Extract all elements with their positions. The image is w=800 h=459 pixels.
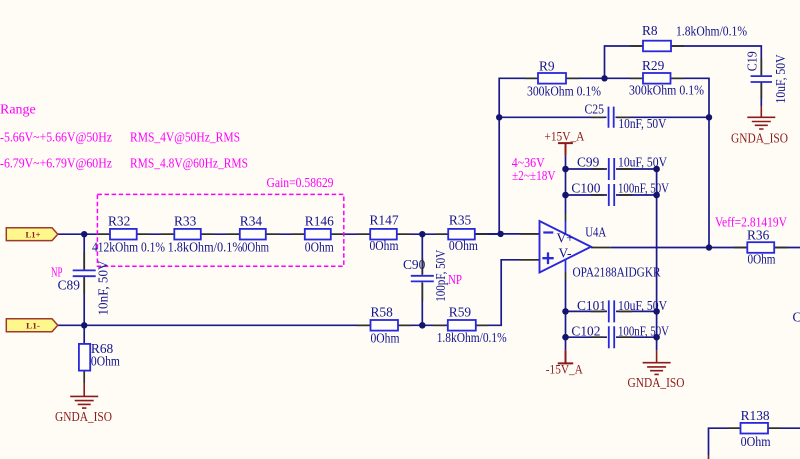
wire V- pin down through C101 C102 — [565, 280, 567, 351]
svg-text:0Ohm: 0Ohm — [748, 251, 776, 266]
capacitor C102 plates — [609, 326, 614, 348]
node R8 / R9 / R29 — [601, 75, 607, 81]
pins C102 — [591, 336, 632, 338]
pins R146 — [292, 233, 345, 235]
svg-text:R34: R34 — [240, 213, 263, 228]
svg-text:Range: Range — [0, 103, 36, 118]
wire C102 line right — [616, 336, 657, 338]
svg-text:Veff=2.81419V: Veff=2.81419V — [715, 215, 787, 230]
svg-text:C102: C102 — [571, 324, 600, 339]
op-amp V- pin inner segment — [565, 260, 567, 273]
node V- C102 — [562, 334, 569, 341]
svg-text:412kOhm 0.1%: 412kOhm 0.1% — [92, 240, 165, 255]
wire C19 bottom to ground stub — [760, 83, 762, 107]
resistor R146 — [305, 229, 331, 240]
pin op-amp output — [591, 247, 611, 249]
svg-text:V+: V+ — [557, 230, 574, 245]
svg-text:R32: R32 — [108, 214, 130, 229]
node V+ C99 — [562, 166, 569, 173]
svg-text:-6.79V~+6.79V@60Hz: -6.79V~+6.79V@60Hz — [0, 156, 112, 171]
COMPONENT BODIES — [79, 41, 774, 434]
resistor R59 — [448, 320, 476, 331]
svg-text:R147: R147 — [370, 213, 399, 228]
wire C90 bottom vertical — [421, 282, 423, 325]
svg-text:R9: R9 — [539, 59, 555, 74]
wire C100 line left — [566, 194, 608, 196]
svg-text:C25: C25 — [585, 102, 605, 117]
capacitor C100 plates — [609, 184, 614, 206]
pins R147 — [357, 233, 410, 235]
node C102 right — [653, 334, 660, 341]
svg-text:Gain=0.58629: Gain=0.58629 — [267, 176, 334, 191]
svg-text:L1-: L1- — [26, 320, 40, 330]
svg-text:L1+: L1+ — [26, 229, 41, 239]
PINS dark segments — [84, 46, 787, 428]
svg-text:1.8kOhm/0.1%: 1.8kOhm/0.1% — [676, 23, 747, 38]
wire C89 bottom plate down to L1- node — [83, 277, 85, 325]
svg-text:C99: C99 — [577, 154, 600, 169]
capacitor C89 plates — [73, 270, 96, 276]
resistor R138 — [741, 423, 769, 434]
svg-text:100nF, 50V: 100nF, 50V — [618, 181, 669, 196]
pins C100 — [591, 194, 632, 196]
svg-text:U4A: U4A — [585, 224, 606, 239]
capacitor C90 plates — [411, 276, 434, 282]
resistor R68 (vertical) — [79, 344, 90, 371]
pins C99 — [591, 168, 632, 170]
port L1- — [6, 319, 58, 332]
wire C102 line left — [566, 336, 608, 338]
power -15V_A bar — [558, 350, 573, 363]
pins R32 — [98, 233, 151, 235]
op-amp U4A triangle — [540, 221, 592, 273]
wire L1- row to corner up to non-inverting input — [58, 260, 540, 326]
svg-text:10uF, 50V: 10uF, 50V — [618, 154, 667, 169]
pins C90 — [421, 258, 423, 301]
svg-text:RMS_4V@50Hz_RMS: RMS_4V@50Hz_RMS — [130, 130, 240, 145]
op-amp V+ pin inner segment — [565, 221, 567, 234]
port L1+ — [6, 228, 58, 241]
node feedback / inverting input — [497, 231, 503, 237]
wire +15V stub to V+ pin — [565, 156, 567, 214]
pin R68 bottom — [83, 371, 85, 383]
red tail bottom R138 vertical — [708, 455, 710, 459]
svg-text:10nF, 50V: 10nF, 50V — [95, 260, 110, 315]
svg-text:100pF, 50V: 100pF, 50V — [433, 250, 448, 302]
node R58 / R59 / C90 — [419, 322, 426, 329]
capacitor C19 plates — [751, 76, 772, 82]
power +15V_A bar — [558, 143, 573, 156]
svg-text:-5.66V~+5.66V@50Hz: -5.66V~+5.66V@50Hz — [0, 130, 112, 145]
pin op-amp non-inverting input — [520, 259, 540, 261]
node C100 right — [653, 192, 660, 199]
svg-text:R58: R58 — [371, 304, 394, 319]
resistor R34 — [240, 229, 266, 240]
svg-text:0Ohm: 0Ohm — [371, 330, 400, 345]
wire C100 line right — [616, 194, 657, 196]
wire R8 feedback branch top — [605, 46, 762, 78]
svg-text:10uF, 50V: 10uF, 50V — [618, 298, 667, 313]
svg-text:-15V_A: -15V_A — [546, 361, 584, 376]
wire L1- node down to R68 — [83, 325, 85, 344]
pins R29 — [630, 77, 684, 79]
svg-text:C19: C19 — [745, 51, 760, 71]
svg-text:1.8kOhm/0.1%: 1.8kOhm/0.1% — [168, 240, 243, 255]
node V- C101 — [562, 308, 569, 315]
Gain dashed box — [97, 194, 343, 266]
svg-text:0Ohm: 0Ohm — [91, 354, 120, 369]
resistor R8 — [643, 41, 671, 52]
svg-text:GNDA_ISO: GNDA_ISO — [731, 131, 788, 146]
resistor R36 — [747, 242, 774, 253]
pins C89 — [83, 252, 85, 294]
svg-text:0Ohm: 0Ohm — [370, 238, 399, 253]
wire C99 line right — [616, 168, 657, 170]
svg-text:0Ohm: 0Ohm — [741, 434, 772, 449]
svg-text:GNDA_ISO: GNDA_ISO — [628, 375, 685, 390]
node V+ C100 — [562, 192, 569, 199]
svg-text:OPA2188AIDGKR: OPA2188AIDGKR — [573, 264, 661, 279]
pins C19 — [760, 59, 762, 100]
svg-text:R59: R59 — [449, 304, 472, 319]
svg-text:+15V_A: +15V_A — [544, 129, 585, 144]
pins R35 — [435, 233, 488, 235]
pins R9 — [525, 77, 579, 79]
wire R29 right to vertical down to output node — [671, 78, 710, 247]
svg-text:1.8kOhm/0.1%: 1.8kOhm/0.1% — [437, 330, 507, 345]
resistor R29 — [643, 73, 671, 84]
resistor R147 — [370, 229, 397, 240]
capacitor C99 plates — [609, 158, 614, 180]
wire C99 line left — [566, 168, 608, 170]
wire decoupling ground vertical — [656, 169, 658, 350]
svg-text:R8: R8 — [642, 23, 658, 38]
capacitor C101 plates — [609, 300, 614, 322]
svg-text:R138: R138 — [741, 408, 770, 423]
capacitor C25 plates — [609, 107, 614, 128]
resistor R9 — [538, 73, 566, 84]
pins R34 — [227, 233, 280, 235]
svg-text:0Ohm: 0Ohm — [449, 238, 478, 253]
svg-text:10nF, 50V: 10nF, 50V — [618, 116, 666, 131]
node L1- / C89 / R68 — [81, 322, 87, 328]
svg-text:100nF, 50V: 100nF, 50V — [618, 324, 669, 339]
svg-text:±2~±18V: ±2~±18V — [512, 169, 556, 184]
op-amp non-inverting mark — [542, 252, 553, 264]
resistor R33 — [174, 229, 201, 240]
svg-text:C90: C90 — [403, 257, 426, 272]
wire op-amp output row to right edge — [611, 247, 800, 249]
svg-text:NP: NP — [448, 273, 462, 288]
pin op-amp V+ — [565, 214, 567, 222]
svg-text:R146: R146 — [305, 213, 334, 228]
node C101 right — [653, 308, 660, 315]
ground GNDA_ISO decoupling — [643, 350, 671, 374]
node C25 left — [496, 114, 502, 120]
wire C101 line right — [616, 310, 657, 312]
svg-text:C: C — [793, 310, 800, 325]
node L1+ / C89 — [81, 231, 87, 237]
wire R138 row from bottom edge — [709, 428, 800, 455]
svg-text:V-: V- — [559, 245, 572, 260]
wire R9 left to feedback vertical down to inverting input — [499, 78, 538, 234]
svg-text:0Ohm: 0Ohm — [242, 240, 269, 255]
wire inverting input line — [475, 233, 540, 235]
svg-text:C101: C101 — [577, 298, 606, 313]
pins R58 — [357, 324, 411, 326]
wire main input row L1+ to R35 — [58, 233, 501, 235]
pin op-amp inverting input — [520, 233, 540, 235]
resistor R35 — [448, 229, 475, 240]
resistor R58 — [371, 320, 399, 331]
svg-text:C100: C100 — [571, 181, 600, 196]
pins R59 — [433, 324, 488, 326]
pins C25 — [591, 116, 630, 118]
svg-text:300kOhm 0.1%: 300kOhm 0.1% — [527, 84, 601, 99]
svg-text:300kOhm 0.1%: 300kOhm 0.1% — [629, 82, 704, 97]
svg-text:NP: NP — [51, 265, 63, 280]
wire R9 to R29 — [566, 77, 643, 79]
pins R33 — [161, 233, 214, 235]
pin op-amp V- — [565, 272, 567, 280]
svg-text:GNDA_ISO: GNDA_ISO — [55, 409, 112, 424]
wire C25 right plate to vertical — [616, 116, 710, 118]
node C25 right — [706, 114, 712, 120]
wire C90 top vertical — [421, 234, 423, 275]
svg-text:0Ohm: 0Ohm — [305, 240, 334, 255]
op-amp inverting mark — [543, 231, 553, 233]
ground GNDA_ISO under R68 — [70, 383, 98, 408]
node output / R36 — [706, 244, 712, 250]
pins R138 — [728, 427, 782, 429]
ground GNDA_ISO under C19 — [747, 106, 775, 129]
svg-text:R33: R33 — [174, 213, 197, 228]
pins C101 — [591, 310, 632, 312]
wire L1+ node down to C89 top plate — [83, 234, 85, 269]
svg-text:RMS_4.8V@60Hz_RMS: RMS_4.8V@60Hz_RMS — [130, 156, 248, 171]
wire C25 left plate branch — [499, 116, 606, 118]
wire C101 line left — [566, 310, 608, 312]
resistor R32 — [110, 229, 137, 240]
svg-text:10uF, 50V: 10uF, 50V — [773, 54, 788, 103]
node R147 / C90 — [419, 231, 425, 237]
svg-text:R35: R35 — [449, 213, 472, 228]
pins R8 — [630, 45, 684, 47]
svg-text:R29: R29 — [642, 58, 665, 73]
pins R36 — [734, 247, 788, 249]
node C99 right — [653, 166, 660, 173]
